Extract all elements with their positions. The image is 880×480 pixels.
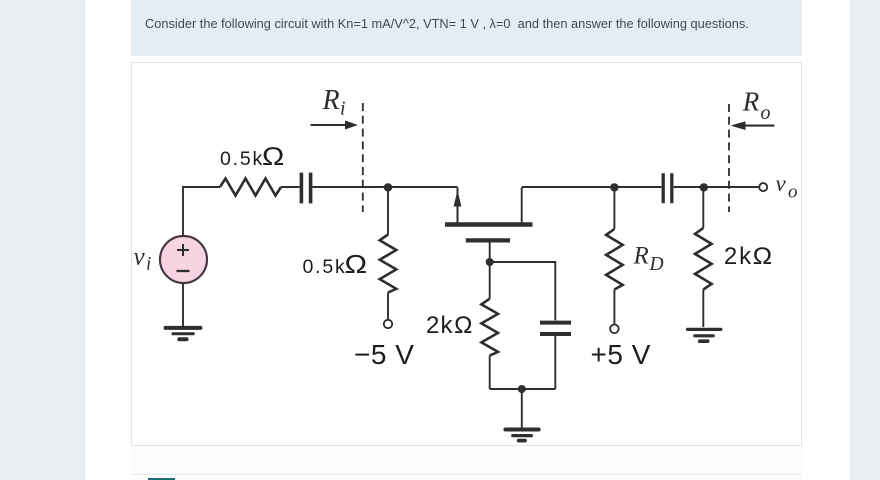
svg-text:Ω: Ω bbox=[262, 143, 285, 171]
svg-text:v: v bbox=[776, 171, 787, 196]
label Ro bbox=[742, 87, 771, 125]
wire vi to ground bbox=[182, 283, 184, 327]
wire input top-left vertical bbox=[182, 187, 184, 236]
wire top-left rail bbox=[182, 186, 220, 188]
transistor Q1 drain lead bbox=[521, 188, 523, 223]
wire node to ground bbox=[521, 389, 523, 428]
transistor Q1 (NMOS) source lead with arrow bbox=[454, 188, 462, 223]
dashed line Ri reference bbox=[362, 103, 364, 212]
resistor 0.5k input series bbox=[220, 179, 281, 196]
ground (load) bbox=[688, 329, 721, 341]
arrow Ri (pointing right into dashed line) bbox=[311, 121, 359, 130]
svg-text:i: i bbox=[340, 98, 346, 120]
label 0.5k ohm (bias resistor) bbox=[303, 249, 368, 279]
ground (vi source) bbox=[166, 328, 201, 339]
resistor RD drain (vertical) bbox=[606, 187, 623, 324]
resistor 2k source (vertical) bbox=[481, 299, 498, 356]
transistor Q1 channel bar (top long bar) bbox=[445, 222, 533, 226]
transistor Q1 gate bar (short lower bar) bbox=[466, 238, 510, 242]
svg-text:R: R bbox=[633, 243, 649, 270]
label Ri bbox=[322, 85, 346, 120]
node source network junction bbox=[486, 258, 494, 266]
label 2k ohm (load resistor) bbox=[724, 243, 773, 270]
node bottom rail junction bbox=[518, 385, 526, 393]
svg-text:o: o bbox=[788, 182, 798, 203]
wire output cap to load node bbox=[674, 186, 704, 188]
svg-text:o: o bbox=[761, 102, 771, 124]
label +5 V bbox=[591, 339, 651, 370]
wire resistor to cap bbox=[281, 186, 300, 188]
svg-text:Ω: Ω bbox=[344, 249, 368, 279]
ground (source network) bbox=[505, 430, 538, 441]
svg-text:0.5k: 0.5k bbox=[220, 148, 264, 170]
svg-text:−5 V: −5 V bbox=[354, 339, 414, 370]
svg-text:R: R bbox=[742, 87, 760, 117]
resistor 2k load (vertical) bbox=[695, 187, 712, 327]
terminal -5V (open circle) bbox=[384, 320, 392, 328]
svg-text:D: D bbox=[649, 254, 664, 275]
label -5 V bbox=[354, 339, 414, 370]
wire load node to output terminal bbox=[703, 186, 758, 188]
svg-text:+5 V: +5 V bbox=[591, 339, 651, 370]
terminal vo (open circle) bbox=[759, 183, 767, 191]
svg-text:2k: 2k bbox=[724, 243, 753, 270]
wire bypass cap to bottom rail bbox=[554, 336, 556, 389]
node load junction bbox=[700, 183, 708, 191]
wire source resistor to bottom rail bbox=[489, 356, 491, 389]
svg-text:i: i bbox=[146, 254, 151, 275]
arrow Ro (pointing left into dashed line) bbox=[731, 121, 775, 130]
label 0.5k ohm (series resistor) bbox=[220, 143, 285, 171]
svg-text:Ω: Ω bbox=[753, 243, 773, 270]
svg-text:v: v bbox=[134, 244, 146, 271]
label 2k ohm (source resistor) bbox=[426, 312, 473, 339]
svg-text:2k: 2k bbox=[426, 312, 454, 339]
terminal +5V (open circle) bbox=[610, 325, 619, 334]
capacitor C1 input coupling bbox=[301, 173, 310, 204]
label vi bbox=[134, 244, 152, 275]
source vi (AC source circle) bbox=[160, 236, 207, 283]
wire bottom rail of source network bbox=[490, 388, 556, 390]
svg-text:Ω: Ω bbox=[454, 312, 473, 339]
wire bias resistor to -5V terminal bbox=[387, 293, 389, 320]
wire node to bias resistor bbox=[387, 187, 389, 235]
resistor 0.5k bias (vertical) bbox=[380, 235, 397, 293]
label RD bbox=[633, 243, 664, 276]
capacitor C2 bypass bbox=[540, 323, 571, 334]
node gate-bias junction bbox=[384, 183, 392, 191]
wire cap to gate node bbox=[313, 186, 458, 188]
wire node to bypass cap branch bbox=[490, 262, 556, 320]
capacitor C3 output coupling bbox=[663, 173, 672, 203]
svg-text:0.5k: 0.5k bbox=[303, 256, 347, 278]
label vo bbox=[776, 171, 798, 203]
dashed line Ro reference bbox=[728, 104, 730, 212]
wire drain rail to output bbox=[522, 186, 662, 188]
node drain-RD junction bbox=[610, 183, 618, 191]
wire gate-bar down to source network node bbox=[489, 243, 491, 299]
svg-text:R: R bbox=[322, 85, 340, 116]
